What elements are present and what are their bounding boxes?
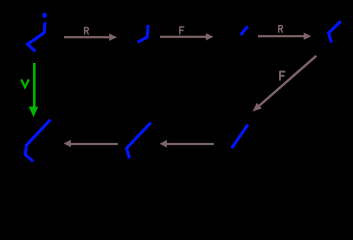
label F2 <box>180 26 185 34</box>
label R1 <box>85 27 89 35</box>
glyph G1 dot <box>43 13 47 18</box>
label V <box>21 79 29 87</box>
arrow R top-3 <box>258 33 311 40</box>
glyph G1 stroke <box>28 22 46 51</box>
arrow R top-1 <box>64 34 117 41</box>
arrow F diagonal <box>253 55 318 112</box>
arrow F top-2 <box>160 33 213 40</box>
glyph G3 <box>241 26 248 35</box>
glyph BM <box>127 123 151 159</box>
glyph BR <box>232 125 248 149</box>
arrow bottom-1 (left) <box>64 140 118 148</box>
arrow V green <box>29 63 38 117</box>
glyph G2 <box>138 25 148 42</box>
glyph G4 <box>329 21 341 42</box>
label R3 <box>279 25 283 33</box>
glyph BL <box>25 120 50 162</box>
arrow bottom-2 (left) <box>160 140 214 148</box>
label F diag <box>280 71 285 81</box>
